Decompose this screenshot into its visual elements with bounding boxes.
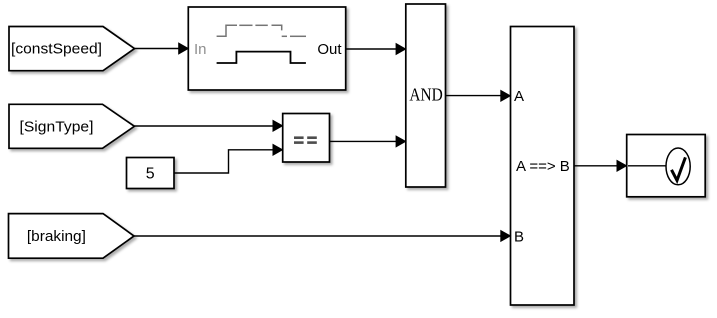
svg-text:A: A: [514, 88, 524, 105]
svg-text:[SignType]: [SignType]: [20, 118, 94, 135]
svg-text:[braking]: [braking]: [27, 228, 86, 245]
svg-text:AND: AND: [409, 84, 442, 104]
svg-text:B: B: [514, 228, 524, 245]
svg-text:A ==> B: A ==> B: [516, 158, 570, 175]
svg-text:In: In: [194, 41, 207, 58]
svg-text:5: 5: [146, 166, 155, 183]
svg-text:[constSpeed]: [constSpeed]: [11, 41, 102, 58]
svg-text:Out: Out: [317, 41, 342, 58]
